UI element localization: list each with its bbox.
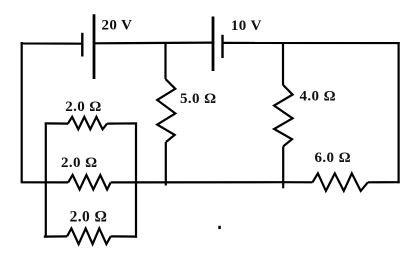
- resistor R6 6.0 ohm (bottom right): [313, 173, 368, 191]
- wire: box top edge right stub: [107, 122, 137, 124]
- wire: parallel box left edge vertical: [45, 123, 47, 237]
- wire: 5.0 ohm branch bottom lead to middle wire: [165, 142, 167, 186]
- battery V2 10V negative short plate: [221, 35, 223, 58]
- resistor R4 5.0 ohm (vertical): [157, 79, 175, 142]
- wire: 4.0 ohm branch top lead from top wire: [282, 43, 284, 85]
- resistor R2 2.0 ohm (middle branch, on main wire): [68, 175, 111, 190]
- resistor R5 4.0 ohm (vertical): [274, 85, 293, 146]
- svg-text:2.0 Ω: 2.0 Ω: [65, 99, 102, 115]
- svg-text:6.0 Ω: 6.0 Ω: [315, 150, 352, 166]
- wire: left side vertical: [21, 42, 23, 183]
- svg-text:10 V: 10 V: [231, 18, 262, 34]
- wire: middle horizontal from resistor R2 to 4.0 ohm node: [111, 181, 284, 183]
- stray dot (period mark) below middle wire: [218, 226, 221, 229]
- wire: 4.0 ohm branch bottom lead crossing the bottom wire: [282, 146, 284, 188]
- wire: top segment from 20V battery to 10V battery (through node of 5.0 ohm branch): [94, 41, 213, 44]
- svg-text:2.0 Ω: 2.0 Ω: [70, 208, 108, 225]
- svg-text:2.0 Ω: 2.0 Ω: [61, 155, 98, 171]
- resistor R1 2.0 ohm (top branch): [68, 117, 107, 129]
- wire: right side vertical: [398, 42, 400, 183]
- svg-text:20 V: 20 V: [102, 18, 133, 34]
- battery V1 20V positive long plate: [93, 14, 96, 79]
- resistor R3 2.0 ohm (bottom branch): [67, 228, 111, 244]
- wire: box bottom edge right stub: [111, 235, 137, 237]
- wire: box bottom edge left stub: [44, 235, 67, 237]
- wire: parallel box right edge vertical: [135, 123, 137, 237]
- wire: bottom segment from 6.0 ohm resistor to bottom-right corner: [368, 181, 400, 183]
- svg-text:4.0 Ω: 4.0 Ω: [300, 89, 337, 105]
- svg-text:5.0 Ω: 5.0 Ω: [180, 91, 217, 107]
- wire: bottom segment from 4.0 ohm node to 6.0 ohm resistor: [283, 181, 312, 183]
- wire: top segment from 10V battery to top-right corner (through node of 4.0 ohm branch): [223, 42, 400, 44]
- wire: middle horizontal from left corner to middle 2.0 ohm resistor: [22, 181, 68, 183]
- wire: top-left segment from left corner to 20V battery: [22, 42, 83, 44]
- battery V2 10V positive long plate: [212, 17, 215, 72]
- wire: box top edge left stub: [45, 122, 68, 124]
- wire: 5.0 ohm branch top lead from top wire: [164, 43, 166, 79]
- battery V1 20V negative short plate: [81, 33, 83, 57]
